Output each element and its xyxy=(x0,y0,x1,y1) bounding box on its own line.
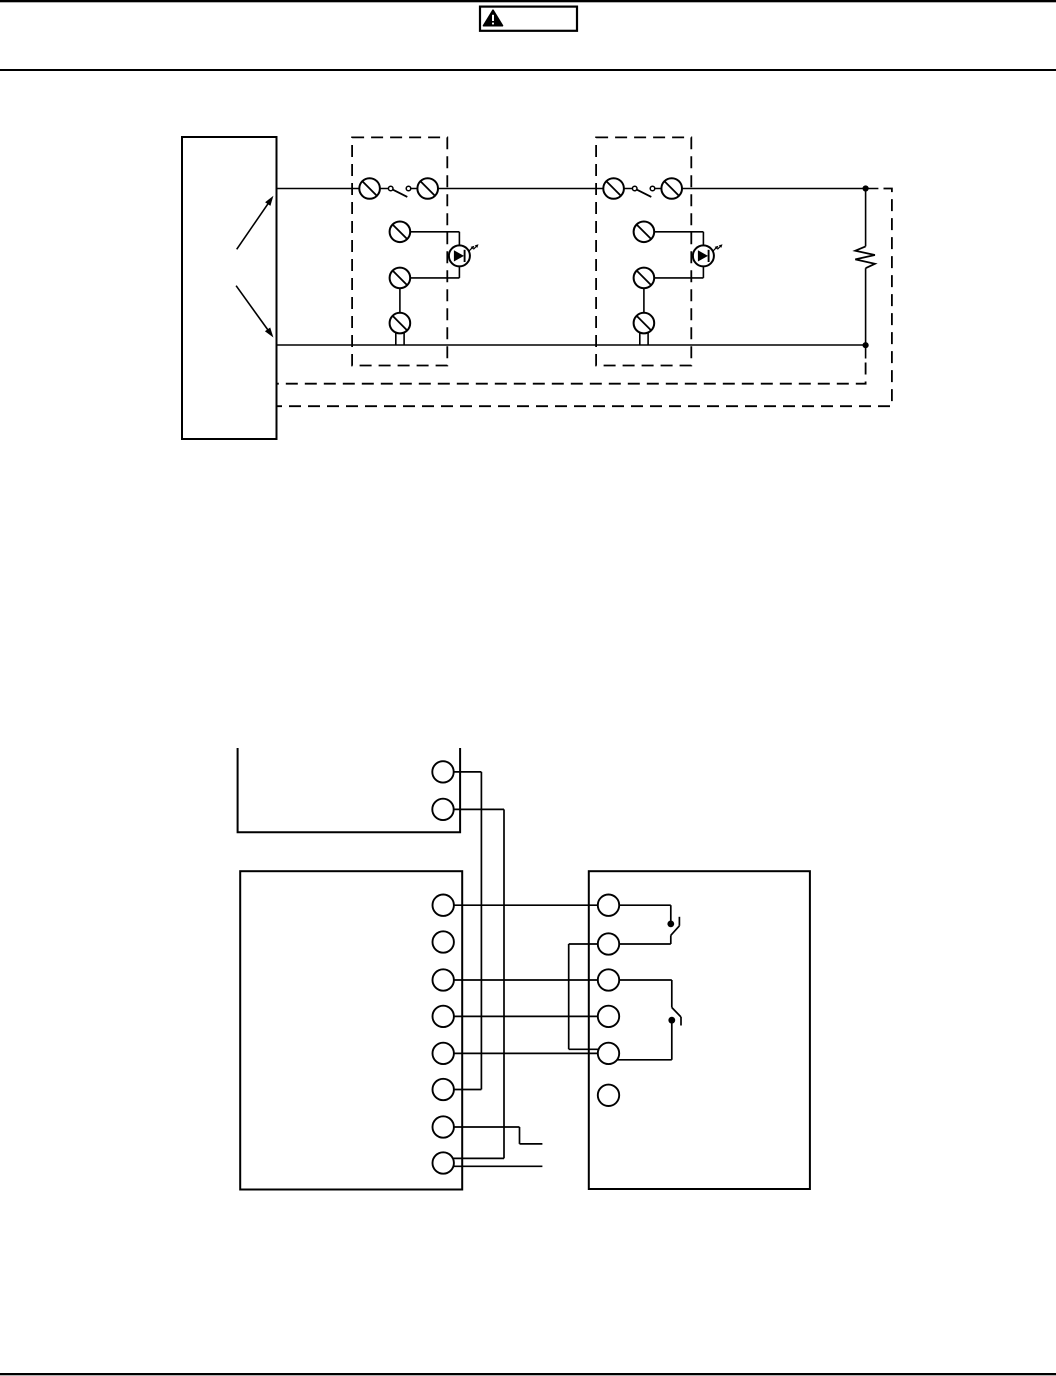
terminal M3 xyxy=(634,222,655,243)
terminal L1 xyxy=(433,895,454,916)
module 2 internals xyxy=(603,178,722,345)
wire LED feed xyxy=(400,231,460,233)
terminal L4 xyxy=(433,1006,454,1027)
node K1 contact xyxy=(667,921,674,928)
switch blade S1 xyxy=(393,190,407,197)
wire B: controller pin B to L8 xyxy=(443,809,504,1158)
terminal M2 xyxy=(390,268,411,289)
wire row 3: L3 to R3 xyxy=(443,979,608,981)
wire bottom bus xyxy=(277,344,866,346)
wire terminal link xyxy=(399,288,401,313)
controller pin B xyxy=(432,799,453,820)
header bottom rule xyxy=(0,69,1056,71)
wire L8 stub xyxy=(443,1165,542,1167)
wire R3 to switch K2 xyxy=(609,980,672,1008)
module 1 internals xyxy=(359,178,478,345)
terminal L7 xyxy=(433,1116,454,1137)
terminal R2 xyxy=(598,933,619,954)
warning triangle icon xyxy=(484,10,503,26)
wire top bus xyxy=(277,188,879,190)
terminal R1 xyxy=(598,895,619,916)
wire A: controller pin A to L6 xyxy=(443,772,481,1090)
footer rule xyxy=(0,1373,1056,1375)
terminal M1 xyxy=(390,222,411,243)
arrow to common wire xyxy=(236,286,273,338)
relay box xyxy=(589,871,810,1189)
terminal T2 xyxy=(417,178,438,199)
node J1 xyxy=(863,185,869,191)
wire R1 to switch K1 xyxy=(609,905,671,921)
LED D2 xyxy=(693,244,723,266)
resistor R1 xyxy=(855,189,875,345)
controller pin A xyxy=(432,761,453,782)
arrow to utility wire xyxy=(237,196,274,250)
wire LED return xyxy=(702,266,704,278)
contact point c xyxy=(632,186,637,191)
terminal R3 xyxy=(598,969,619,990)
wire R2 to switch K1 xyxy=(609,943,671,945)
dashed enclosure module 2 xyxy=(596,137,691,365)
switch blade S2 xyxy=(637,190,651,197)
left terminal strip box xyxy=(240,871,462,1189)
contact point a xyxy=(388,186,393,191)
contact point d xyxy=(650,186,655,191)
terminal B2 xyxy=(634,313,655,334)
wire row 4: L4 to R4 xyxy=(443,1015,608,1017)
terminal L8 xyxy=(433,1152,454,1173)
terminal L3 xyxy=(433,969,454,990)
terminal L5 xyxy=(433,1043,454,1064)
LED D1 xyxy=(449,244,479,266)
header top rule xyxy=(0,0,1056,2)
terminal R6 xyxy=(598,1085,619,1106)
wire ground fork xyxy=(395,332,397,345)
terminal R4 xyxy=(598,1006,619,1027)
wire terminal link xyxy=(643,288,645,313)
dashed wire inner run xyxy=(277,363,866,384)
terminal T4 xyxy=(661,178,682,199)
switch K1 xyxy=(671,917,680,944)
node J2 xyxy=(863,342,869,348)
wire switch K2 to R5 xyxy=(616,1023,672,1060)
terminal L6 xyxy=(433,1079,454,1100)
wire L7 stub xyxy=(443,1127,542,1144)
dashed wire outer run xyxy=(277,189,892,407)
terminal B1 xyxy=(390,313,411,334)
wire R2 bypass to R5 xyxy=(569,944,609,1049)
dashed enclosure module 1 xyxy=(352,137,447,365)
contact point b xyxy=(406,186,411,191)
warning box xyxy=(480,7,577,31)
terminal T1 xyxy=(359,178,380,199)
wire row 1: L1 to R1 xyxy=(443,904,608,906)
terminal L2 xyxy=(433,931,454,952)
wire ground fork xyxy=(639,332,641,345)
node K2 contact xyxy=(668,1017,675,1024)
switch K2 xyxy=(672,1008,681,1026)
terminal M4 xyxy=(634,268,655,289)
wire LED feed xyxy=(644,231,704,233)
wire junction stub xyxy=(865,345,867,358)
terminal T3 xyxy=(603,178,624,199)
wire row 5: L5 to R5 xyxy=(443,1052,608,1054)
controller box (open top) xyxy=(238,748,461,832)
transfer switch box xyxy=(182,137,277,439)
wire LED return xyxy=(458,266,460,278)
terminal R5 xyxy=(598,1043,619,1064)
